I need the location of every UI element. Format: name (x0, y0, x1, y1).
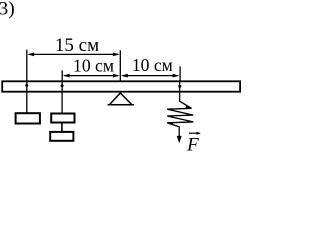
dimension 10 см right : extension line (spring side) (179, 66, 181, 81)
wire : string of middle weights through beam (61, 81, 63, 113)
dimension 15 см : extension line left (26, 50, 28, 82)
dimension 15 см : line with arrows (27, 53, 119, 57)
spring (coil) (167, 81, 193, 127)
force arrow shaft (178, 127, 180, 139)
svg-text:10 см: 10 см (132, 55, 173, 75)
svg-text:10 см: 10 см (73, 56, 114, 76)
svg-text:F: F (186, 135, 199, 156)
svg-text:3): 3) (0, 0, 15, 19)
dimension 10 см left : extension line (61, 70, 63, 81)
force label F vector arrow (189, 132, 201, 135)
wire : string of left weight through beam (26, 81, 28, 113)
beam (lever) (2, 81, 240, 91)
weight W2 upper block (51, 114, 74, 123)
svg-text:15 см: 15 см (55, 35, 99, 56)
node B : attachment dot of middle weights (61, 84, 64, 87)
node A : attachment dot of left weight (25, 84, 28, 87)
weight W1 (left single block) (16, 113, 40, 123)
dimension 15 см : extension line right (over fulcrum) (119, 50, 121, 81)
dimension 10 см right : line with arrows (121, 74, 179, 78)
dimension 10 см left : line with arrows (63, 74, 120, 78)
fulcrum (support triangle) (108, 93, 134, 105)
weight W2 lower block (50, 132, 73, 141)
wire : link between stacked blocks (61, 123, 63, 131)
node C : attachment dot of spring (178, 85, 181, 88)
force arrow head (177, 136, 182, 143)
